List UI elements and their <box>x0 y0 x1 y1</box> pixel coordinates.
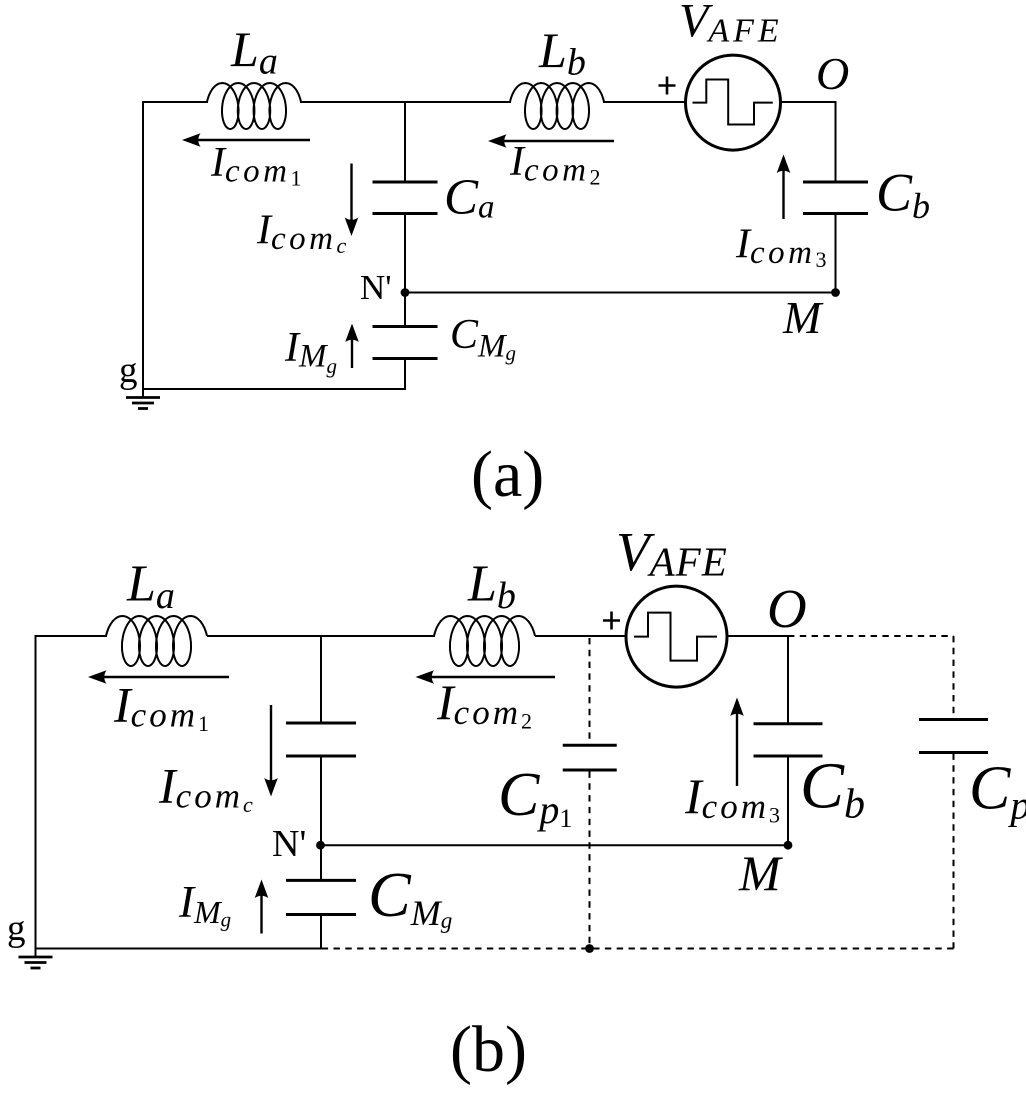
wire Lb to source (a) <box>603 101 686 103</box>
capacitor Cb (a) <box>803 182 868 214</box>
current arrow Icom2 (b) <box>416 670 556 684</box>
inductor Lb (b) <box>434 616 535 666</box>
wire source to O corner (a) <box>781 101 837 103</box>
inductor La (b) <box>106 616 207 666</box>
wire M to Nprime (b) <box>321 844 789 846</box>
current arrow IMg (b) <box>255 880 269 934</box>
node M junction (a) <box>831 288 840 297</box>
svg-text:N': N' <box>272 823 306 865</box>
wire junction down to Ca-cap (b) <box>320 635 322 723</box>
square-wave symbol (a) <box>693 80 773 125</box>
current arrow Icom3 (b) <box>730 698 744 787</box>
square-wave symbol (b) <box>634 613 717 661</box>
junction dashed bottom (b) <box>585 944 594 953</box>
svg-text:O: O <box>816 48 849 99</box>
wire M to Nprime (a) <box>405 292 836 294</box>
inductor La (a) <box>207 83 301 129</box>
capacitor CMg (b) <box>286 880 356 914</box>
wire Lb to source (b) <box>535 635 627 637</box>
wire CMg to bottom (b) <box>320 915 322 949</box>
dashed wire Cp to bottom corner (b) <box>953 754 955 949</box>
parasitic capacitor Cp (b) <box>919 720 988 753</box>
wire Nprime to CMg (b) <box>320 845 322 880</box>
current arrow Icomc (b) <box>264 705 278 797</box>
current arrow Icom1 (b) <box>88 670 229 684</box>
capacitor Ca (b) <box>286 723 356 756</box>
svg-text:(b): (b) <box>450 1013 527 1086</box>
plus terminal (a) <box>659 77 676 95</box>
wire O down to Cb (b) <box>787 635 789 724</box>
wire top-left horizontal (a) <box>143 101 208 103</box>
wire junction down to Ca (a) <box>404 101 406 182</box>
wire bottom horizontal (b) <box>35 948 322 950</box>
inductor Lb (a) <box>510 83 604 129</box>
wire bottom horizontal (a) <box>142 388 406 390</box>
wire source to O corner (b) <box>727 635 788 637</box>
wire top-left horizontal (b) <box>36 635 108 637</box>
current arrow Icom2 (a) <box>488 134 614 148</box>
node M junction (b) <box>784 841 793 850</box>
wire CMg to bottom (a) <box>404 359 406 390</box>
wire left vertical (a) <box>142 101 144 389</box>
ground symbol (a) <box>126 389 160 409</box>
node Nprime junction (a) <box>401 288 410 297</box>
wire Cb to M (a) <box>835 214 837 293</box>
dashed wire right down to Cp (b) <box>953 636 955 719</box>
svg-text:g: g <box>119 350 138 391</box>
dashed wire bottom horizontal (b) <box>322 948 954 950</box>
wire Cb to M (b) <box>787 756 789 845</box>
svg-text:N': N' <box>360 268 392 307</box>
svg-text:O: O <box>767 578 807 639</box>
plus terminal (b) <box>603 612 620 630</box>
wire La to junction to Lb (b) <box>207 635 435 637</box>
wire La to Lb (a) <box>300 101 511 103</box>
current arrow IMg (a) <box>345 324 359 369</box>
svg-text:g: g <box>7 908 26 949</box>
capacitor Cb (b) <box>754 724 823 756</box>
ground symbol (b) <box>19 949 53 969</box>
node Nprime junction (b) <box>316 841 325 850</box>
capacitor Ca (a) <box>373 182 438 214</box>
wire Ca to Nprime (a) <box>404 214 406 293</box>
capacitor CMg (a) <box>373 327 438 359</box>
current arrow Icomc (a) <box>345 164 359 237</box>
current arrow Icom1 (a) <box>182 133 310 147</box>
current arrow Icom3 (a) <box>777 155 791 220</box>
svg-text:M: M <box>782 292 824 343</box>
svg-text:M: M <box>738 845 783 901</box>
wire Nprime to CMg (a) <box>404 293 406 327</box>
svg-text:(a): (a) <box>471 438 544 511</box>
parasitic capacitor Cp1 (b) <box>563 745 617 770</box>
voltage source VAFE circle (a) <box>686 55 781 150</box>
wire O down to Cb (a) <box>835 101 837 182</box>
dashed wire O to right corner (b) <box>788 635 954 637</box>
dashed wire Cp1 to bottom (b) <box>589 772 591 949</box>
wire left vertical (b) <box>35 635 37 949</box>
dashed wire top to Cp1 (b) <box>589 638 591 744</box>
voltage source VAFE circle (b) <box>626 586 727 687</box>
wire cap to Nprime (b) <box>320 756 322 845</box>
